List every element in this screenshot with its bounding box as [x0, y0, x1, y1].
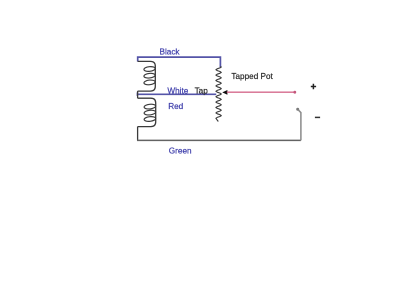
svg-text:Tapped Pot: Tapped Pot [231, 72, 273, 81]
svg-text:Black: Black [160, 48, 181, 57]
svg-text:Green: Green [169, 146, 192, 155]
svg-text:Red: Red [168, 102, 183, 111]
svg-text:White: White [167, 86, 188, 95]
svg-text:Tap: Tap [195, 86, 209, 95]
